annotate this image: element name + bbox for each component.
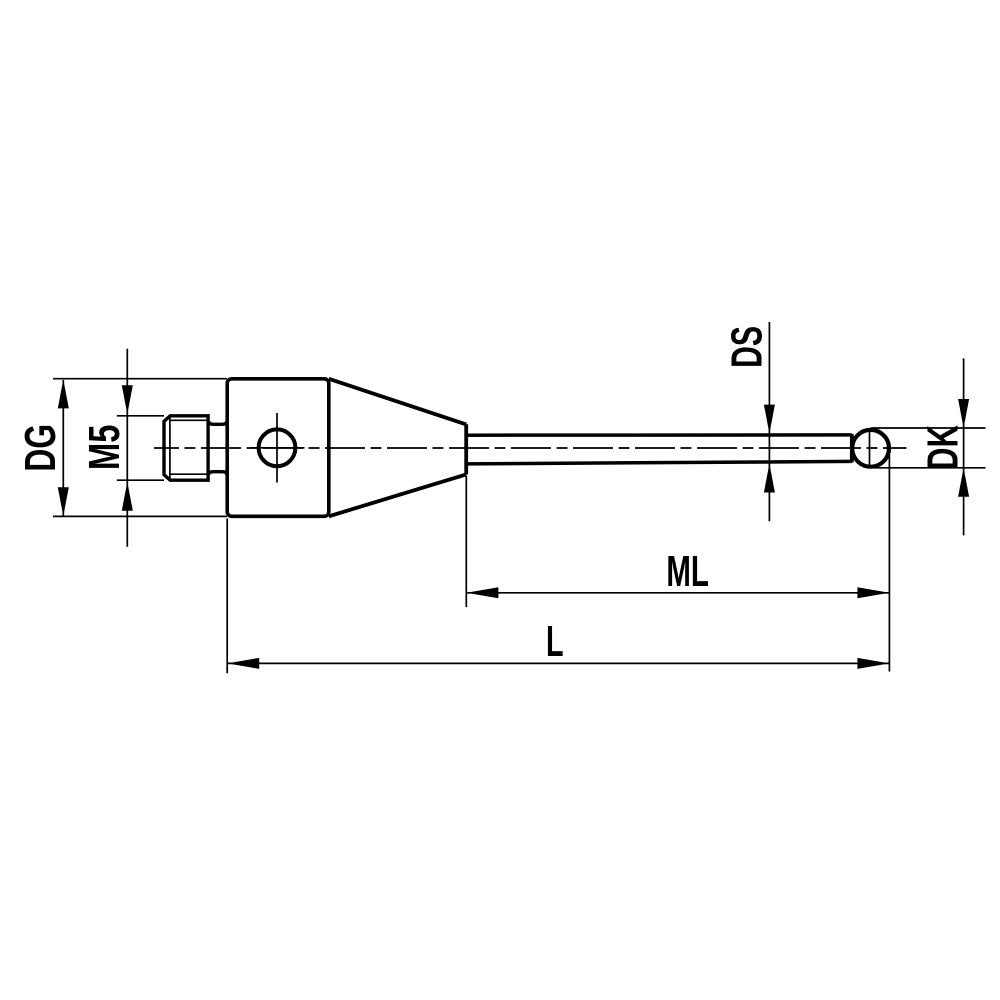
- L dimension line: [227, 662, 889, 664]
- M5 dimension line: [126, 349, 128, 547]
- svg-text:M5: M5: [81, 425, 130, 470]
- neck groove bottom line: [209, 472, 228, 475]
- L extension line at body left: [226, 519, 228, 674]
- centerline axis: [154, 447, 907, 449]
- stem end cap: [850, 434, 854, 462]
- svg-text:ML: ML: [666, 546, 709, 595]
- ML extension line at cone tip: [465, 476, 467, 607]
- DK extension line bottom: [874, 467, 986, 469]
- stem bottom edge: [466, 461, 852, 464]
- holder body: [227, 379, 329, 517]
- DK arrow top (points down): [958, 399, 969, 428]
- M5 extension line bottom: [117, 479, 164, 481]
- cross hole horizontal centerline tick: [250, 447, 305, 449]
- cone top edge: [329, 379, 466, 425]
- ball tip: [852, 430, 889, 467]
- neck groove top line: [209, 421, 228, 424]
- DG dimension line: [62, 380, 64, 516]
- cone tip face: [464, 424, 468, 474]
- DK extension line top: [871, 427, 986, 429]
- ML dimension line: [466, 592, 889, 594]
- DS arrow bottom (points up): [764, 464, 775, 493]
- DG arrow down: [58, 487, 69, 516]
- thread minor diameter line top: [171, 419, 207, 421]
- DG extension line top: [53, 378, 227, 380]
- ball right extension line: [888, 455, 890, 672]
- DG arrow up: [58, 379, 69, 408]
- ML arrow right: [857, 587, 889, 598]
- cone bottom edge: [329, 474, 466, 516]
- L arrow left: [227, 658, 259, 669]
- DK dimension line: [963, 358, 965, 535]
- DK arrow bottom (points up): [958, 468, 969, 497]
- DS arrow top (points down): [764, 405, 775, 434]
- cross hole: [259, 429, 296, 466]
- svg-text:L: L: [546, 617, 564, 665]
- M5 arrow bottom (points up): [122, 482, 133, 511]
- thread M5 body outline: [164, 416, 208, 480]
- DS dimension line: [768, 322, 770, 521]
- L arrow right: [857, 658, 889, 669]
- ball vertical crosshair: [869, 432, 871, 467]
- cross hole vertical centerline: [276, 413, 278, 483]
- stem top edge: [466, 433, 852, 437]
- M5 extension line top: [117, 415, 164, 417]
- thread chamfer vertical line: [169, 417, 171, 479]
- M5 arrow top (points down): [122, 385, 133, 414]
- svg-text:DG: DG: [18, 424, 66, 472]
- svg-text:DK: DK: [919, 425, 967, 470]
- ML arrow left: [466, 587, 498, 598]
- thread minor diameter line bottom: [171, 473, 207, 475]
- DG extension line bottom: [53, 515, 227, 517]
- svg-text:DS: DS: [722, 326, 771, 368]
